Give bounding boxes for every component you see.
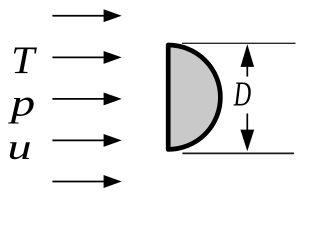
node u: freestream velocity label — [7, 128, 31, 168]
wire: upper tangent line — [182, 42, 296, 44]
dimension arrow down (bottom of D) — [240, 114, 254, 152]
svg-text:p: p — [8, 83, 36, 125]
svg-text:T: T — [11, 38, 37, 81]
node D: diameter label — [233, 75, 252, 113]
wire: lower tangent line — [182, 152, 294, 154]
wire: freestream arrow 5 — [52, 175, 121, 188]
wire: freestream arrow 3 — [52, 92, 121, 105]
svg-text:D: D — [233, 75, 252, 113]
wire: freestream arrow 2 — [52, 51, 121, 64]
svg-text:u: u — [7, 128, 31, 168]
wire: freestream arrow 1 — [52, 9, 121, 22]
half-cylinder body (flat face upstream, filled gray) — [168, 45, 220, 149]
node T: freestream temperature label — [11, 38, 37, 81]
node p: freestream pressure label — [8, 83, 36, 125]
wire: freestream arrow 4 — [52, 134, 121, 147]
dimension arrow up (top of D) — [241, 44, 255, 77]
